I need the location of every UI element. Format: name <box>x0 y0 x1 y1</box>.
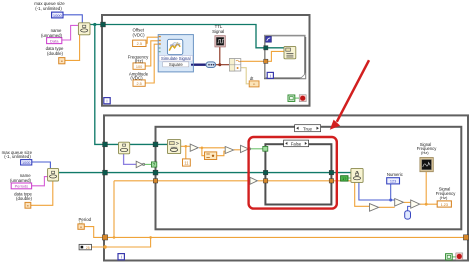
svg-text:(double): (double) <box>47 51 63 56</box>
wire: in-range box to compare 2 lower input (orange) <box>217 151 226 156</box>
svg-text:False: False <box>291 142 302 147</box>
wire: orange after inner case to drop at VI3 <box>333 181 370 207</box>
svg-text:(VDC): (VDC) <box>133 33 146 38</box>
Period control <box>78 224 84 229</box>
svg-text:dt: dt <box>250 76 254 81</box>
string constant Periods <box>11 183 31 189</box>
tunnel: period into bottom loop <box>102 235 107 240</box>
divide node <box>395 199 404 207</box>
stop terminal (top loop) <box>299 95 306 102</box>
wire: VI3 numeric out (blue) <box>359 182 395 200</box>
conversion triangle (case chain 1) <box>190 144 198 151</box>
svg-text:≡: ≡ <box>27 204 29 208</box>
label: data type (top) <box>46 46 64 56</box>
Frequency control <box>133 63 145 69</box>
svg-text:2.5: 2.5 <box>137 42 142 46</box>
wire: dequeue element out (purple) to empty? node <box>124 154 137 165</box>
tunnel: queue2 into case <box>153 170 158 175</box>
label: data type (bottom) <box>14 192 32 201</box>
svg-text:≡: ≡ <box>61 60 63 64</box>
loop condition (bottom loop): boolean constant <box>446 254 453 260</box>
svg-text:1000: 1000 <box>22 161 30 165</box>
dt constant <box>249 81 259 87</box>
wire: queue refnum branch down to dequeue (teal) <box>95 25 119 145</box>
wire: green constant stub to VI3 <box>348 177 351 179</box>
tunnel: teal into inner while <box>264 46 268 50</box>
wire: obtain queue 2 output (teal) across consumer loop <box>58 172 351 174</box>
wire: TTL Signal drop (dark red) <box>218 47 221 66</box>
label: Amplitude (VDC) <box>129 71 149 80</box>
Signal Frequency graph indicator <box>420 158 433 172</box>
numeric constant capsule (blue) <box>405 211 411 219</box>
tunnel: queue1 into top loop <box>101 22 106 27</box>
stop terminal (bottom loop) <box>456 253 463 260</box>
wire: bottom run to right tunnel (orange) <box>108 236 465 238</box>
wire: branch down to in-range box (orange) <box>201 147 205 156</box>
divide node 2 <box>411 200 420 208</box>
wire: queue refnum from obtain queue 1 (teal) <box>90 25 265 48</box>
wire: constant 11 drop (orange) <box>185 145 188 159</box>
svg-text:(double): (double) <box>16 196 32 201</box>
in range and coerce box <box>205 152 217 160</box>
wire: result to Signal Frequency indicators (orange) <box>420 203 437 206</box>
svg-text:25: 25 <box>86 246 90 250</box>
wire: name Data to obtain queue 1 (pink) <box>62 25 79 40</box>
wire: queue VI 2 to conversion (orange, in case) <box>181 145 191 147</box>
Amplitude control <box>133 80 145 86</box>
svg-text:i: i <box>270 73 271 78</box>
label: name (top) <box>41 28 63 38</box>
inner while iteration terminal <box>267 72 273 78</box>
numeric constant 1000 (top) <box>52 12 63 18</box>
wire: branch up to graph indicator (orange) <box>425 172 427 204</box>
convert capsule (dynamic data) <box>206 62 216 68</box>
inner while loop (top loop) <box>264 36 306 79</box>
svg-text:Numeric: Numeric <box>387 172 404 177</box>
wire: Amplitude to Simulate Signal (orange) <box>145 44 159 83</box>
string constant Data <box>47 38 62 44</box>
tunnel: period into case <box>153 179 157 183</box>
wire: data type to obtain queue 2 (orange) <box>31 180 53 205</box>
wire: Periods name to obtain queue 2 (pink) <box>32 177 48 186</box>
case selector label True <box>295 125 321 132</box>
queue status VI (in case) <box>168 140 181 154</box>
svg-text:1.23: 1.23 <box>441 203 448 207</box>
while loop (consumer, bottom) <box>104 115 468 260</box>
wire: Period line across case (orange) <box>114 180 250 182</box>
svg-text:True: True <box>303 127 313 132</box>
wire: multiply out to divide (orange) <box>379 206 395 208</box>
svg-text:Periods: Periods <box>15 184 29 189</box>
tunnel: queue1 into case <box>153 142 158 147</box>
wire: inner-while tunnel to enqueue VI (teal) <box>267 47 284 49</box>
wire: stop boolean (green, top loop) <box>295 97 299 99</box>
enqueue element (inner while) <box>284 46 296 58</box>
label: max queue size (top) <box>34 1 65 11</box>
case structure False (inner) <box>265 144 331 204</box>
iteration terminal (top loop) <box>104 98 110 104</box>
obtain queue 2 <box>48 168 59 181</box>
svg-text:1?: 1? <box>342 177 346 181</box>
Signal Frequency numeric indicator <box>437 201 451 207</box>
case selector label False <box>284 140 309 147</box>
label: TTL Signal <box>212 24 224 34</box>
svg-text:Signal: Signal <box>212 29 224 34</box>
label: Frequency (Hz) <box>128 54 149 63</box>
svg-text:Data: Data <box>50 38 59 43</box>
svg-text:2.5: 2.5 <box>136 82 141 86</box>
double constant (top data type) <box>59 58 65 64</box>
wire: Offset to Simulate Signal (orange) <box>146 37 159 43</box>
multiply node <box>370 204 379 212</box>
svg-text:Square: Square <box>169 62 183 67</box>
svg-text:10: 10 <box>79 220 83 224</box>
svg-text:(VDC): (VDC) <box>130 76 143 81</box>
wire: data type double to obtain queue 1 (orange) <box>65 35 80 61</box>
double constant (bottom data type) <box>25 202 31 208</box>
label: Signal Frequency (Hz) bottom <box>436 187 456 200</box>
case selector terminal (bottom loop case) <box>151 162 156 167</box>
svg-text:100: 100 <box>136 65 142 69</box>
numeric constant 1000 (bottom) <box>21 160 32 165</box>
wire: grid to inner while tunnel (orange) <box>241 60 265 62</box>
Offset control <box>133 40 146 46</box>
loop condition (top loop): boolean constant + stop terminal <box>288 95 295 101</box>
wire: stop boolean (green, bottom loop) <box>452 256 456 258</box>
wire: orange into enqueue VI <box>267 51 284 61</box>
wire: capsule to convert grid (dark red) <box>215 64 229 66</box>
svg-text:(Hz): (Hz) <box>135 58 144 63</box>
wire: divide out (orange) <box>404 201 411 203</box>
iteration terminal (bottom loop) <box>118 254 124 260</box>
svg-text:?: ? <box>356 170 359 175</box>
obtain queue 1 <box>78 23 90 35</box>
svg-text:1000: 1000 <box>53 13 63 18</box>
svg-text:Simulate Signal: Simulate Signal <box>161 56 191 61</box>
svg-text:(unnamed): (unnamed) <box>10 178 32 183</box>
constant 11 (case) <box>183 159 191 166</box>
wire: riser from Period run (orange) <box>113 181 116 239</box>
label: Period <box>79 217 92 225</box>
tunnel: period into inner case <box>263 179 267 183</box>
svg-text:(-1, unlimited): (-1, unlimited) <box>35 6 62 11</box>
convert from dynamic data grid <box>229 59 240 71</box>
wire: Frequency to Simulate Signal (orange) <box>145 41 159 66</box>
wire: 1000 to obtain queue 2 (blue) <box>32 162 51 168</box>
compare triangle 2 <box>225 147 233 154</box>
svg-text:(Hz): (Hz) <box>421 150 429 155</box>
wire: conversion to compare chain (orange) <box>199 147 225 149</box>
TTL Signal indicator icon <box>215 36 225 47</box>
wire: orange through inner case <box>258 180 333 182</box>
dequeue element 2 (periods) <box>351 168 363 182</box>
case structure True <box>156 127 462 230</box>
wire: compare2 to compare3 (orange) <box>234 149 241 151</box>
Simulate Signal express VI <box>158 35 193 72</box>
tunnel: orange out right border <box>463 235 468 240</box>
label: Signal Frequency (Hz) top <box>417 142 437 155</box>
svg-text:i: i <box>121 255 122 260</box>
while loop (producer, top) <box>102 15 310 106</box>
svg-text:(unnamed): (unnamed) <box>41 33 63 38</box>
empty? node (after dequeue) <box>136 161 145 167</box>
tunnel: orange into inner while <box>264 59 268 63</box>
wire: max queue size 1000 to obtain queue 1 (blue) <box>63 15 82 23</box>
case selector terminal (inner case) <box>263 146 268 151</box>
dequeue element <box>119 142 130 154</box>
wire: dequeue out queue refnum to case (teal) <box>130 143 168 145</box>
conversion triangle (orange line, red zone) <box>250 177 257 184</box>
tunnel: queue2 out of inner case <box>329 170 333 174</box>
svg-text:i: i <box>107 99 108 104</box>
Numeric indicator <box>387 178 400 184</box>
wire: Period control to tunnel (orange) <box>84 227 102 238</box>
svg-text:11: 11 <box>184 161 189 166</box>
inner while timer icon <box>266 36 272 42</box>
wire: 1000 constant stub (blue) <box>408 206 411 210</box>
wire: numeric branch up to indicator (blue) <box>389 184 392 202</box>
tunnel: period out of inner case <box>329 179 333 183</box>
timing constant (black box) <box>79 244 91 249</box>
wire: Simulate Signal Square output (dynamic data, navy) <box>194 63 207 65</box>
wire: timing constant into loop (orange) <box>92 236 152 249</box>
tunnel: queue2 into inner case <box>263 170 267 174</box>
wire: grid lower output to dt constant (pale) <box>241 68 250 84</box>
svg-text:123: 123 <box>390 180 396 184</box>
junction: queue1 branch <box>93 23 96 26</box>
annotation: red arrow <box>330 60 369 130</box>
svg-text:(-1, unlimited): (-1, unlimited) <box>4 154 31 159</box>
label: name (bottom) <box>10 173 32 183</box>
svg-text:(Hz): (Hz) <box>440 195 448 200</box>
label: max queue size (bottom) <box>2 150 33 159</box>
annotation: red rounded rectangle <box>249 137 337 209</box>
wire: compare3 to inner case selector (green) <box>250 148 263 150</box>
boolean constant (green, at VI3) <box>341 176 348 181</box>
label: Numeric <box>387 172 404 177</box>
tunnel: queue2 into bottom loop <box>103 170 108 175</box>
svg-text:≡: ≡ <box>80 225 82 229</box>
label: dt <box>250 76 254 81</box>
compare triangle 3 (boolean out) <box>241 145 251 152</box>
wire: boolean to case selector (green) <box>144 163 152 165</box>
label: Offset (VDC) <box>132 28 145 38</box>
tunnel: queue1 into bottom loop <box>103 142 108 147</box>
